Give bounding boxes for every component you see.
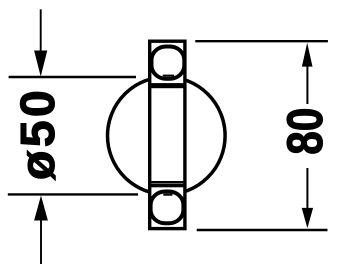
right bottom extension line (197, 229, 328, 231)
rail rectangle body (150, 41, 185, 228)
top rounded knob (152, 47, 185, 79)
left top extension line (9, 76, 136, 78)
right bottom arrow stem (306, 168, 308, 209)
bottom thin line (150, 181, 185, 183)
right top extension line (195, 40, 328, 42)
left top arrowhead (34, 51, 47, 77)
top black bar (150, 83, 185, 88)
svg-text:80: 80 (277, 108, 333, 155)
right top arrowhead (302, 43, 313, 67)
bottom rounded knob (151, 192, 184, 224)
left bottom arrow stem (40, 219, 42, 264)
bottom knob highlight tick (163, 194, 172, 196)
right top arrow stem (306, 65, 308, 104)
bottom black bar (150, 183, 185, 187)
top knob highlight tick (163, 75, 175, 77)
right bottom arrowhead (302, 208, 313, 228)
left bottom arrowhead (34, 196, 48, 221)
svg-text:ø50: ø50 (11, 87, 65, 180)
circle plate O50 (108, 77, 226, 195)
left bottom extension line (8, 193, 138, 195)
left top arrow stem (40, 9, 42, 55)
